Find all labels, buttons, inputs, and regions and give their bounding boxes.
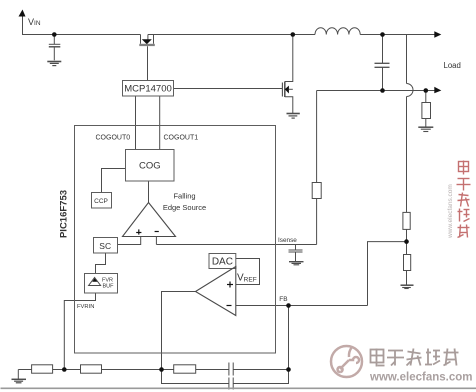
svg-text:COGOUT0: COGOUT0 xyxy=(96,135,131,142)
svg-text:Isense: Isense xyxy=(278,237,297,244)
svg-text:PIC16F753: PIC16F753 xyxy=(59,190,70,238)
svg-text:Falling: Falling xyxy=(173,192,195,201)
svg-text:Load: Load xyxy=(444,61,461,70)
svg-text:Edge Source: Edge Source xyxy=(163,203,206,212)
svg-text:VIN: VIN xyxy=(28,17,41,27)
svg-text:BUF: BUF xyxy=(103,284,115,290)
svg-text:DAC: DAC xyxy=(212,256,233,267)
svg-text:www.elecfans.com: www.elecfans.com xyxy=(447,184,454,239)
svg-text:FB: FB xyxy=(279,296,287,303)
svg-text:VREF: VREF xyxy=(237,273,257,284)
svg-text:SC: SC xyxy=(99,241,111,251)
svg-text:FVRIN: FVRIN xyxy=(77,304,94,310)
svg-text:CCP: CCP xyxy=(94,198,108,205)
svg-text:COG: COG xyxy=(139,161,161,172)
svg-text:MCP14700: MCP14700 xyxy=(124,84,172,95)
svg-text:www.elecfans.com: www.elecfans.com xyxy=(369,372,472,384)
svg-text:COGOUT1: COGOUT1 xyxy=(164,135,199,142)
